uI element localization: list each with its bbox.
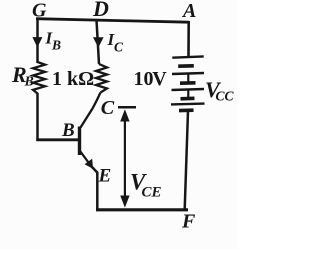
label IB [45,29,62,53]
label VCC [205,77,235,104]
battery plate short 4 [179,108,194,112]
wire bottom rail E-F [96,208,188,211]
battery plate short 1 [178,64,194,68]
VCE arrowhead up [120,109,129,121]
svg-text:CC: CC [216,88,235,103]
label RB [11,62,34,89]
svg-text:D: D [92,0,109,21]
resistor 1 kOhm [96,64,107,93]
label VCE [130,170,162,201]
svg-text:B: B [51,38,61,53]
wire base horizontal [36,138,78,141]
current arrow IB [32,37,42,47]
battery plate long 2 [172,73,204,74]
svg-text:A: A [181,0,196,22]
battery plate short 3 [181,97,195,101]
svg-text:B: B [24,74,34,89]
node A [181,0,196,22]
svg-text:C: C [114,40,124,55]
value label 10 V [134,68,168,90]
battery inter-cell stub 2 [187,90,189,98]
battery VCC plate long 1 [172,56,203,57]
wire left vertical below RB [36,93,39,141]
wire middle vertical from D [97,20,100,64]
svg-text:F: F [181,210,196,232]
transistor Q1 emitter lead [80,151,89,163]
svg-text:10: 10 [134,68,154,90]
battery plate long 3 [172,89,205,90]
wire top rail G-D-A [36,19,189,23]
value label 1 kOhm [52,68,94,90]
wire emitter to bottom rail [92,167,98,210]
svg-text:CE: CE [142,184,162,200]
node B label [61,120,75,141]
label IC [107,30,125,55]
resistor RB [33,62,45,94]
node C label [101,97,115,119]
VCE arrowhead down [120,196,129,208]
wire left vertical from G [36,18,39,63]
transistor Q1 base bar [78,127,81,156]
transistor Q1 collector lead [81,93,101,128]
node D [92,0,109,21]
battery plate long 4 [171,102,205,105]
svg-text:C: C [101,97,115,119]
node G [32,0,47,22]
svg-text:1 kΩ: 1 kΩ [52,68,94,90]
battery inter-cell stub 1 [187,74,189,83]
battery plate short 2 [180,81,196,85]
svg-text:E: E [98,166,112,187]
current arrow IC [93,37,104,47]
node E label [98,166,112,187]
wire right vertical from A to battery [187,21,190,57]
VCE arrow shaft [124,114,126,202]
transistor Q1 emitter arrowhead [85,159,94,169]
node F label [181,210,196,232]
VCE reference tick at C [118,106,136,109]
svg-text:V: V [152,68,167,90]
svg-text:B: B [61,120,75,141]
wire right vertical battery to F [185,111,188,209]
